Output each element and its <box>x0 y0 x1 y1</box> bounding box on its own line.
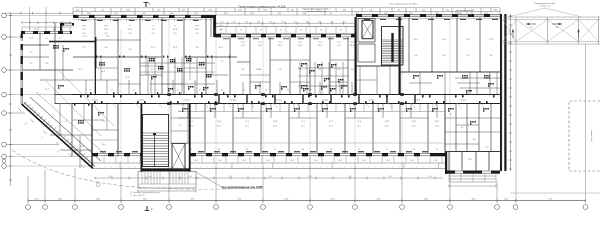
top wall right section <box>356 14 362 17</box>
bottom rooms sill line <box>170 142 445 144</box>
svg-text:2400: 2400 <box>219 33 223 35</box>
svg-text:1200: 1200 <box>263 10 267 12</box>
bottom rooms cells near corridor <box>187 104 189 118</box>
upper zone door jambs <box>100 56 101 58</box>
svg-text:3.4: 3.4 <box>330 149 332 151</box>
grid verticals gallery <box>515 44 517 204</box>
diagonal ramp outer wall <box>22 104 94 169</box>
gallery arrows <box>526 23 536 25</box>
svg-text:6.8: 6.8 <box>490 55 493 57</box>
upper zone inner subdivision <box>95 67 118 69</box>
svg-text:5.4: 5.4 <box>279 69 282 71</box>
svg-text:4.1: 4.1 <box>177 90 179 92</box>
svg-text:6.8: 6.8 <box>443 55 446 57</box>
svg-text:2100: 2100 <box>422 10 426 12</box>
svg-text:750: 750 <box>329 13 332 15</box>
svg-text:9.6: 9.6 <box>351 69 354 71</box>
svg-text:750: 750 <box>102 10 105 12</box>
svg-text:1310: 1310 <box>245 21 249 23</box>
svg-text:кухня: кухня <box>245 126 249 128</box>
svg-text:3000: 3000 <box>314 160 318 162</box>
left dimension chain <box>10 14 12 186</box>
svg-text:1200: 1200 <box>208 10 212 12</box>
pipe axis label with leader <box>196 172 221 187</box>
svg-text:1200: 1200 <box>33 29 37 31</box>
landscape boundary arc <box>12 150 150 188</box>
svg-text:жилая: жилая <box>350 42 355 44</box>
svg-text:1310: 1310 <box>269 21 273 23</box>
left corridor stub <box>55 94 72 96</box>
svg-text:3000: 3000 <box>386 160 390 162</box>
svg-text:с/у: с/у <box>129 25 131 27</box>
svg-text:3.2: 3.2 <box>111 90 113 92</box>
svg-text:кухня: кухня <box>329 126 333 128</box>
svg-text:15.4: 15.4 <box>106 36 110 38</box>
svg-text:900: 900 <box>410 13 413 15</box>
left block top dim chain <box>22 22 72 24</box>
dense fixture zone 300-348 <box>299 62 301 95</box>
svg-text:Граница благоустройства см.: Граница благоустройства см. <box>133 191 161 194</box>
svg-text:6.1: 6.1 <box>46 38 49 40</box>
corridor door jambs <box>80 95 82 97</box>
svg-text:кухня: кухня <box>273 126 277 128</box>
svg-text:6000: 6000 <box>96 199 100 201</box>
svg-text:лист 000-ГП: лист 000-ГП <box>133 195 145 197</box>
dashed existing building outline <box>569 101 600 171</box>
door swing arcs <box>88 104 93 109</box>
svg-text:2.8: 2.8 <box>320 30 322 32</box>
core walls <box>355 17 357 95</box>
svg-text:3000: 3000 <box>410 160 414 162</box>
radiators recessed <box>223 37 229 40</box>
svg-text:3600: 3600 <box>82 33 86 35</box>
svg-text:Сущ. здание: Сущ. здание <box>591 129 593 142</box>
svg-text:3000: 3000 <box>362 160 366 162</box>
svg-text:с/у: с/у <box>152 25 154 27</box>
svg-text:жилая: жилая <box>82 25 87 27</box>
svg-text:4.1: 4.1 <box>155 90 157 92</box>
svg-text:6000: 6000 <box>191 199 195 201</box>
svg-text:жилая: жилая <box>385 126 390 128</box>
right low block entrance stair <box>449 175 496 177</box>
svg-text:3000: 3000 <box>290 160 294 162</box>
svg-text:7.7: 7.7 <box>59 38 62 40</box>
svg-text:1200: 1200 <box>194 13 198 15</box>
corridor walls <box>72 94 500 96</box>
svg-text:1500: 1500 <box>157 10 161 12</box>
svg-text:2.9: 2.9 <box>386 149 388 151</box>
svg-text:2100: 2100 <box>238 10 242 12</box>
svg-text:3.2: 3.2 <box>280 30 282 32</box>
svg-text:6000: 6000 <box>35 199 39 201</box>
svg-text:6000: 6000 <box>424 199 428 201</box>
balcony row recessed <box>216 25 356 27</box>
svg-text:жилая: жилая <box>258 42 263 44</box>
svg-text:9.3: 9.3 <box>65 121 68 123</box>
radiators left-center <box>81 20 87 21</box>
svg-text:5.7: 5.7 <box>81 159 83 161</box>
svg-text:5.6: 5.6 <box>221 90 223 92</box>
upper small cells near corridor <box>85 80 87 95</box>
svg-text:3000: 3000 <box>338 160 342 162</box>
top wall left-center with windows <box>73 15 79 18</box>
terrace edge <box>92 168 445 170</box>
right top cells <box>419 72 421 95</box>
svg-text:600: 600 <box>370 10 373 12</box>
bath clusters mid <box>255 85 257 87</box>
left-bottom partitions <box>71 104 73 157</box>
bath cluster left-bottom <box>78 120 80 122</box>
svg-text:кухня: кухня <box>357 126 361 128</box>
gallery bottom chord <box>503 41 600 43</box>
svg-text:600: 600 <box>182 10 185 12</box>
right block upper detail <box>444 95 446 151</box>
right top partitions <box>408 18 410 73</box>
window mullions right <box>361 17 363 20</box>
svg-text:2100: 2100 <box>303 13 307 15</box>
grid stubs above <box>29 7 31 30</box>
svg-text:коридор: коридор <box>184 100 191 102</box>
right side dimension line <box>510 14 512 171</box>
bottom wall with windows <box>92 153 98 156</box>
svg-text:6000: 6000 <box>143 199 147 201</box>
bath clusters bottom <box>182 108 184 110</box>
bottom rooms partitions <box>117 104 119 153</box>
svg-text:5.2: 5.2 <box>30 52 33 54</box>
svg-text:2.9: 2.9 <box>436 149 438 151</box>
svg-text:5.6: 5.6 <box>89 90 91 92</box>
svg-text:1310: 1310 <box>342 21 346 23</box>
svg-text:кухня: кухня <box>318 42 322 44</box>
dense fixture zone 145-215 <box>147 57 149 95</box>
svg-text:жилая: жилая <box>435 126 440 128</box>
svg-text:3.6: 3.6 <box>300 30 302 32</box>
ramp hatch <box>24 102 28 105</box>
svg-text:6000: 6000 <box>238 199 242 201</box>
svg-text:1200: 1200 <box>87 13 91 15</box>
svg-text:кухня: кухня <box>298 42 302 44</box>
bottom facade dimension line <box>95 177 443 179</box>
diagonal dimension ticks <box>18 108 21 111</box>
left block west wall with windows <box>21 34 23 38</box>
top-left dimension chain <box>4 12 73 14</box>
ramp projection lines <box>46 81 101 136</box>
left block interior walls <box>49 41 96 43</box>
section mark 1-1 top <box>145 2 147 7</box>
right top interior wall <box>400 71 501 73</box>
svg-text:2100: 2100 <box>250 13 254 15</box>
svg-text:3.6: 3.6 <box>340 30 342 32</box>
svg-text:4.2: 4.2 <box>467 55 470 57</box>
svg-text:жилая: жилая <box>104 25 109 27</box>
mid small cells <box>242 82 244 95</box>
svg-text:3000: 3000 <box>242 160 246 162</box>
svg-text:кухня: кухня <box>219 25 223 27</box>
svg-text:3.2: 3.2 <box>287 90 289 92</box>
svg-text:300: 300 <box>556 27 559 29</box>
svg-text:8.1: 8.1 <box>259 69 262 71</box>
svg-text:1800: 1800 <box>494 10 498 12</box>
ramp inner parallels <box>30 97 101 161</box>
svg-text:2.8: 2.8 <box>260 30 262 32</box>
stairwell left treads <box>143 132 168 134</box>
svg-text:6000: 6000 <box>331 199 335 201</box>
svg-text:кухня: кухня <box>301 126 305 128</box>
bottom bump-out entrance stair <box>138 172 196 189</box>
svg-text:2100: 2100 <box>278 13 282 15</box>
svg-text:16.1: 16.1 <box>83 36 87 38</box>
svg-text:коридор: коридор <box>460 100 467 102</box>
svg-text:2100: 2100 <box>114 13 118 15</box>
svg-text:8.6: 8.6 <box>103 121 106 123</box>
corridor shafts <box>218 95 220 104</box>
svg-text:2.8: 2.8 <box>473 139 476 141</box>
svg-text:6000: 6000 <box>377 199 381 201</box>
right low block walls <box>445 151 447 174</box>
sill line right section <box>356 17 500 19</box>
section mark 2 bottom <box>146 206 148 211</box>
svg-text:2.9: 2.9 <box>274 149 276 151</box>
svg-text:4.1: 4.1 <box>199 90 201 92</box>
svg-text:1500: 1500 <box>170 13 174 15</box>
gallery top chord <box>503 16 600 18</box>
svg-text:с/у: с/у <box>174 25 176 27</box>
step wall between sections <box>213 15 216 37</box>
grid horizontals left <box>7 15 74 17</box>
svg-text:3.4: 3.4 <box>302 149 304 151</box>
svg-text:8.1: 8.1 <box>299 69 302 71</box>
gallery posts <box>515 17 517 44</box>
bath clusters upper <box>99 62 101 64</box>
svg-text:3000: 3000 <box>194 160 198 162</box>
svg-text:жилая: жилая <box>241 42 246 44</box>
porch above right section <box>456 11 472 15</box>
loggia cells band <box>92 162 141 164</box>
svg-text:4.2: 4.2 <box>178 111 181 113</box>
svg-text:1200: 1200 <box>342 10 346 12</box>
bath cluster left block <box>58 85 60 87</box>
svg-text:3.4: 3.4 <box>218 149 220 151</box>
svg-text:коридор: коридор <box>230 100 237 102</box>
upper rooms partitions left-center <box>94 18 96 95</box>
svg-text:жилая: жилая <box>412 126 417 128</box>
svg-text:300: 300 <box>530 27 533 29</box>
top dimension chain <box>73 7 500 9</box>
stair block protruding walls <box>141 104 143 172</box>
core lobby cells <box>359 66 361 95</box>
svg-text:кухня: кухня <box>337 42 341 44</box>
corridor piers <box>167 93 171 96</box>
svg-text:3.6: 3.6 <box>240 30 242 32</box>
gallery X bracing <box>503 20 516 42</box>
terrace railing ticks <box>92 166 94 168</box>
radiators right section <box>364 19 370 20</box>
axis lines through plan <box>120 30 122 168</box>
elevator left shaft <box>172 144 185 170</box>
left axis circles <box>2 13 7 18</box>
svg-text:1500: 1500 <box>446 10 450 12</box>
svg-text:3.2: 3.2 <box>133 90 135 92</box>
svg-text:8.8: 8.8 <box>46 63 49 65</box>
svg-text:2.9: 2.9 <box>358 149 360 151</box>
svg-text:3600: 3600 <box>128 33 132 35</box>
bottom axis circles <box>26 205 31 210</box>
top wall recessed section <box>216 34 221 37</box>
svg-text:2.9: 2.9 <box>413 149 415 151</box>
recessed wall dimension chain <box>216 22 356 24</box>
svg-text:5.0: 5.0 <box>486 147 489 149</box>
bottom right light line <box>510 192 600 194</box>
svg-text:Узел примыкания см. 000 м: Узел примыкания см. 000 м <box>390 4 418 6</box>
sill line left-center <box>73 18 215 20</box>
svg-text:1310: 1310 <box>233 21 237 23</box>
svg-text:жилая: жилая <box>217 126 222 128</box>
mid sub-walls <box>270 59 310 61</box>
svg-text:750: 750 <box>398 10 401 12</box>
svg-text:1500: 1500 <box>224 13 228 15</box>
svg-text:4.5: 4.5 <box>461 127 464 129</box>
svg-text:9.6: 9.6 <box>338 69 341 71</box>
svg-text:9.6: 9.6 <box>242 69 245 71</box>
mid section partitions <box>229 37 231 94</box>
svg-text:3000: 3000 <box>434 160 438 162</box>
svg-text:6.8: 6.8 <box>415 55 418 57</box>
svg-text:1310: 1310 <box>330 21 334 23</box>
svg-text:3000: 3000 <box>218 160 222 162</box>
svg-text:6000: 6000 <box>58 199 62 201</box>
window mullions left-center <box>78 18 80 21</box>
bottom long dimension line <box>28 200 586 202</box>
svg-text:в осях 1-3: в осях 1-3 <box>540 6 551 8</box>
gallery rail ticks <box>503 17 505 19</box>
svg-text:жилая: жилая <box>278 42 283 44</box>
svg-text:коридор: коридор <box>138 100 145 102</box>
radiators bottom <box>100 151 106 152</box>
svg-text:6000: 6000 <box>285 199 289 201</box>
gallery gable lines <box>508 8 545 17</box>
svg-text:жилая: жилая <box>195 25 200 27</box>
svg-text:1310: 1310 <box>294 21 298 23</box>
svg-text:2400: 2400 <box>173 33 177 35</box>
stairwell right treads <box>382 27 404 66</box>
svg-text:6000: 6000 <box>472 199 476 201</box>
svg-text:7.4: 7.4 <box>30 63 33 65</box>
svg-text:6000: 6000 <box>549 199 553 201</box>
svg-text:16.2: 16.2 <box>468 159 472 161</box>
svg-text:1800: 1800 <box>384 13 388 15</box>
svg-text:3600: 3600 <box>104 33 108 35</box>
right end wall <box>500 14 502 171</box>
svg-text:600: 600 <box>291 10 294 12</box>
svg-text:1310: 1310 <box>257 21 261 23</box>
svg-text:2100: 2100 <box>126 10 130 12</box>
elevator U1 shaft <box>358 19 375 43</box>
left block top wall <box>21 31 25 34</box>
svg-text:1310: 1310 <box>318 21 322 23</box>
svg-text:1310: 1310 <box>220 21 224 23</box>
right block interior rooms <box>455 104 457 151</box>
bath clusters right top <box>413 75 415 77</box>
svg-text:2.1: 2.1 <box>178 125 181 127</box>
svg-text:1310: 1310 <box>281 21 285 23</box>
svg-text:3000: 3000 <box>266 160 270 162</box>
upper sub-walls <box>95 39 140 41</box>
cells above elevator <box>171 104 188 144</box>
svg-text:5.6: 5.6 <box>265 90 267 92</box>
svg-text:1310: 1310 <box>306 21 310 23</box>
svg-text:2400: 2400 <box>195 33 199 35</box>
svg-text:1500: 1500 <box>76 10 80 12</box>
grid verticals bottom <box>27 176 29 204</box>
svg-text:2400: 2400 <box>151 33 155 35</box>
svg-text:3.4: 3.4 <box>246 149 248 151</box>
left block cells row <box>22 26 72 28</box>
svg-text:3.1: 3.1 <box>450 114 453 116</box>
svg-text:900: 900 <box>143 13 146 15</box>
svg-text:6000: 6000 <box>504 199 508 201</box>
svg-text:1310: 1310 <box>317 10 321 12</box>
svg-text:8.1: 8.1 <box>319 69 322 71</box>
stairwell left walls <box>143 115 169 167</box>
svg-text:коридор: коридор <box>276 100 283 102</box>
